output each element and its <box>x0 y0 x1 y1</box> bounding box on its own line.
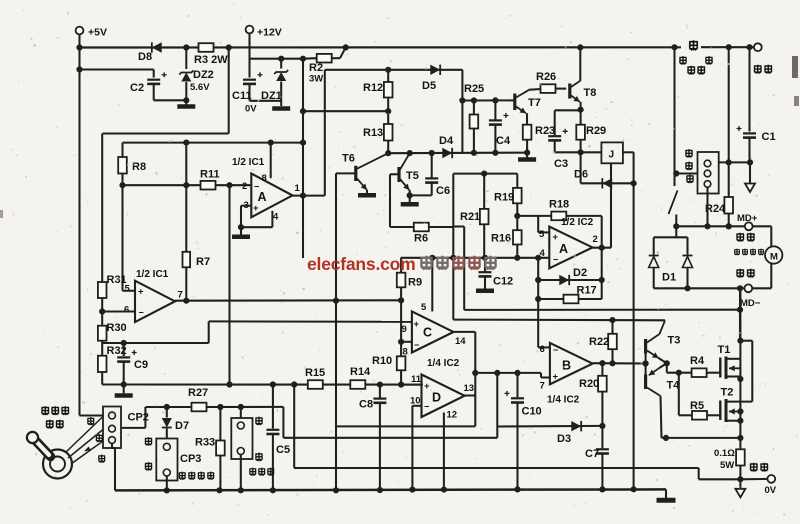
wire pin6 <box>102 310 135 312</box>
svg-text:D5: D5 <box>422 80 436 92</box>
wire C3 to node <box>555 151 581 153</box>
transistor T8 emitter <box>571 96 580 102</box>
wire C3 bottom lead <box>554 141 556 152</box>
ground R23 <box>518 157 536 162</box>
svg-text:+: + <box>414 319 420 330</box>
junction <box>535 255 541 261</box>
wire P vertical <box>463 227 465 310</box>
svg-text:R7: R7 <box>196 256 210 268</box>
resistor R4 <box>692 368 707 377</box>
capacitor C11 <box>243 79 256 81</box>
junction <box>119 182 125 188</box>
wire D6 line <box>581 182 634 184</box>
wire D2 line <box>538 279 602 281</box>
wire Q line <box>453 319 665 322</box>
svg-text:+: + <box>553 372 559 383</box>
hanzi <box>249 468 256 476</box>
svg-text:R4: R4 <box>690 355 705 367</box>
junction <box>121 340 127 346</box>
junction <box>524 150 530 156</box>
ground DZ2 <box>177 104 195 109</box>
junction <box>226 381 232 387</box>
wire D1a bottom lead <box>653 268 655 289</box>
wire limiter top <box>240 407 242 418</box>
junction <box>409 487 415 493</box>
wire D3 line <box>497 425 602 428</box>
wire B output line <box>593 362 646 364</box>
diode D1a <box>649 255 659 257</box>
transistor T5 emitter <box>400 179 409 190</box>
junction <box>164 404 170 410</box>
svg-text:elecfans.com: elecfans.com <box>307 254 416 274</box>
wire R2 left <box>303 57 317 60</box>
capacitor C10 <box>511 397 524 399</box>
diode D3 <box>571 421 581 431</box>
wire sense step <box>698 468 700 479</box>
svg-text:C5: C5 <box>276 444 290 456</box>
svg-text:−: − <box>424 402 429 412</box>
wire R9-R10 link <box>400 300 402 356</box>
wire gnd stem R23 <box>526 153 528 158</box>
watermark hanzi 5 <box>485 256 497 270</box>
hanzi <box>758 249 764 256</box>
hanzi <box>750 249 756 256</box>
wire R9 bottom lead <box>400 287 402 300</box>
svg-text:−: − <box>414 340 419 350</box>
wire R5 branch <box>678 373 680 416</box>
terminal MD+ <box>745 222 753 230</box>
junction <box>343 44 349 50</box>
svg-text:T7: T7 <box>528 97 541 109</box>
wire base join <box>645 354 647 375</box>
svg-text:5W: 5W <box>720 460 734 471</box>
junction <box>385 150 391 156</box>
hanzi <box>51 406 59 415</box>
wire pin4 stub <box>271 211 273 227</box>
junction <box>599 245 605 251</box>
capacitor C2 <box>147 79 160 81</box>
resistor R14 <box>350 380 365 389</box>
wire T1 drain <box>726 358 740 360</box>
svg-text:1/2 IC2: 1/2 IC2 <box>561 217 594 228</box>
wire PWM line <box>102 383 423 385</box>
wire R23 bottom lead <box>526 140 528 153</box>
junction <box>217 404 223 410</box>
svg-text:R11: R11 <box>200 169 220 181</box>
wire D7 bottom <box>166 429 168 439</box>
wire C8 bottom <box>379 403 381 490</box>
junction <box>599 486 605 492</box>
watermark hanzi 3 <box>453 256 465 270</box>
wire DZ2 bottom <box>185 82 187 100</box>
wire D output <box>465 394 476 396</box>
resistor 0.1ohm shunt <box>736 449 745 465</box>
svg-text:DZ2: DZ2 <box>193 69 214 81</box>
hanzi <box>188 472 195 480</box>
junction <box>333 298 339 304</box>
wire T6 collector <box>357 153 388 169</box>
svg-text:D3: D3 <box>557 433 571 445</box>
connector 3-pin <box>698 152 719 194</box>
wire R16 bottom lead <box>516 245 518 258</box>
ground T5 <box>401 202 419 207</box>
transistor T3 bar <box>644 339 647 354</box>
resistor R9 <box>397 273 406 288</box>
wire D1 top bracket <box>654 236 688 238</box>
svg-text:−: − <box>553 345 558 355</box>
svg-text:5.6V: 5.6V <box>190 82 210 93</box>
svg-text:C7: C7 <box>585 448 599 460</box>
transistor T4 bar <box>644 375 647 390</box>
wire pin7 <box>541 376 550 378</box>
svg-text:R5: R5 <box>690 400 704 412</box>
wire R30-R32 <box>101 341 103 356</box>
junction <box>164 487 170 493</box>
svg-text:D: D <box>432 391 441 405</box>
svg-text:R29: R29 <box>586 125 606 137</box>
ground C12 <box>476 289 494 294</box>
hanzi <box>705 56 712 64</box>
op-amp IC2-B <box>550 343 593 384</box>
junction <box>398 382 404 388</box>
junction <box>472 370 478 376</box>
transistor T7 bar <box>513 94 516 111</box>
wire key down <box>673 47 675 186</box>
ground DZ1 <box>272 106 290 111</box>
junction <box>514 213 520 219</box>
svg-text:−: − <box>139 308 144 318</box>
wire beta left vertical <box>282 407 284 438</box>
junction <box>459 97 465 103</box>
junction <box>471 97 477 103</box>
wire C6 top <box>431 153 433 178</box>
wire T3 emitter join <box>659 358 667 363</box>
wire IC1-B output long <box>175 299 401 301</box>
wire R29 bottom lead <box>580 140 582 153</box>
wire R2 to rail <box>340 47 346 58</box>
junction <box>300 140 306 146</box>
junction <box>300 56 306 62</box>
wire D5 node down <box>461 70 463 153</box>
svg-text:R19: R19 <box>494 192 514 204</box>
wire C10 top <box>516 373 518 397</box>
wire drain bypass <box>751 341 753 402</box>
svg-text:11: 11 <box>411 374 422 385</box>
hanzi <box>145 462 152 470</box>
wire switch bottom <box>675 215 677 227</box>
wire R12 bottom node <box>303 110 388 112</box>
wire R26 right <box>556 88 567 90</box>
wire R9 top lead <box>400 258 402 273</box>
wire +5V rail down <box>78 48 80 416</box>
wire gnd stem <box>409 195 411 202</box>
diode D2 <box>559 275 569 285</box>
wire T2 source <box>726 420 740 422</box>
junction <box>76 66 82 72</box>
wire R7 top lead <box>185 143 187 252</box>
resistor R31 <box>98 282 107 298</box>
junction <box>492 97 498 103</box>
svg-text:R31: R31 <box>107 274 127 286</box>
capacitor C12 <box>479 271 492 273</box>
wire J right <box>623 151 634 153</box>
junction <box>643 360 649 366</box>
svg-text:0V: 0V <box>245 104 257 115</box>
junction <box>578 107 584 113</box>
wire R5 right <box>707 414 720 416</box>
wire long vertical T6 base <box>335 173 337 490</box>
wire MD- right <box>752 287 771 289</box>
svg-text:T1: T1 <box>718 344 731 356</box>
wire C6 bottom link <box>410 194 432 196</box>
wire gnd stem <box>665 489 667 498</box>
hanzi <box>687 66 695 75</box>
junction <box>441 487 447 493</box>
wire comparator output line <box>475 372 541 374</box>
svg-text:C8: C8 <box>359 399 373 411</box>
wire C2 bottom <box>153 85 155 101</box>
hanzi <box>736 233 744 242</box>
wire R17 right <box>579 298 602 300</box>
wire T8 collector up <box>579 47 581 80</box>
capacitor C8 <box>373 398 386 400</box>
wire T7 emitter down <box>526 113 528 125</box>
wire R20 bottom lead <box>601 392 603 426</box>
diode D7 <box>162 418 172 428</box>
junction <box>76 44 82 50</box>
svg-text:R25: R25 <box>464 83 484 95</box>
hanzi <box>96 434 103 442</box>
junction <box>481 171 487 177</box>
svg-text:6: 6 <box>540 344 545 355</box>
svg-text:C10: C10 <box>522 406 542 418</box>
resistor R13 <box>384 124 393 141</box>
capacitor C3 <box>548 135 561 137</box>
junction <box>300 193 306 199</box>
wire C2 top <box>153 70 155 78</box>
wire cp2 elbow <box>112 447 115 449</box>
svg-text:T3: T3 <box>668 335 681 347</box>
wire C10 bottom <box>516 403 518 489</box>
hanzi <box>686 175 693 183</box>
wire pin5 stub C <box>431 258 433 312</box>
svg-text:R26: R26 <box>536 71 556 83</box>
transistor T2 <box>719 401 721 421</box>
wire R19 top lead <box>516 174 518 188</box>
wire T5 emitter down <box>409 190 411 195</box>
resistor R2 <box>317 54 332 63</box>
wire IC2-A output <box>593 247 612 249</box>
wire R6 left <box>390 226 414 228</box>
motor M <box>765 246 782 263</box>
junction <box>278 56 284 62</box>
wire CP2 right <box>121 427 145 429</box>
ground T6 <box>358 193 376 198</box>
wire R5 left <box>679 414 692 416</box>
resistor R10 <box>397 356 406 370</box>
junction <box>673 223 679 229</box>
resistor R20 <box>598 376 607 392</box>
junction <box>183 298 189 304</box>
wire pin11 <box>401 384 421 386</box>
resistor R24 <box>724 197 733 214</box>
junction <box>216 487 222 493</box>
wire C12 top <box>484 258 486 272</box>
wire R24 top <box>728 47 730 197</box>
wire R6 right <box>429 226 453 228</box>
svg-text:R27: R27 <box>188 387 208 399</box>
transistor T6 emitter <box>357 178 367 190</box>
wire DZ1 bottom <box>280 82 282 107</box>
wire D1 bottom bracket <box>654 287 740 289</box>
wire J left <box>581 151 602 153</box>
watermark hanzi 2 <box>437 256 449 270</box>
wire limiter bottom <box>240 455 242 491</box>
hanzi <box>198 472 205 480</box>
wire R32 to C9 node <box>102 383 124 385</box>
capacitor C4 <box>489 119 502 121</box>
hanzi <box>46 420 54 429</box>
wire pin3 down <box>240 206 242 228</box>
junction <box>398 339 404 345</box>
svg-text:T8: T8 <box>584 87 597 99</box>
chassis arrow C1 <box>745 184 755 193</box>
resistor R19 <box>513 188 522 203</box>
transistor T8 bar <box>568 84 571 99</box>
svg-text:1/4 IC2: 1/4 IC2 <box>547 395 580 406</box>
wire C2 to DZ2 node <box>154 99 187 101</box>
wire C output <box>454 331 476 333</box>
junction <box>737 338 743 344</box>
connector CP2 <box>103 407 121 449</box>
svg-text:6: 6 <box>124 305 129 316</box>
svg-text:R33: R33 <box>195 437 215 449</box>
junction <box>407 192 413 198</box>
hanzi <box>747 233 755 242</box>
svg-text:R10: R10 <box>372 355 392 367</box>
svg-text:T5: T5 <box>406 170 419 182</box>
wire opamp A out up <box>324 70 326 196</box>
hanzi <box>747 269 755 278</box>
junction <box>238 224 244 230</box>
junction <box>747 159 753 165</box>
svg-text:+: + <box>253 203 259 214</box>
hanzi <box>697 66 705 75</box>
junction <box>599 360 605 366</box>
terminal +5V <box>76 27 84 35</box>
transistor T6 bar <box>354 166 357 181</box>
svg-text:R20: R20 <box>579 378 599 390</box>
wire R32 bottom <box>101 372 103 385</box>
diode D8 <box>152 42 162 52</box>
wire chassis stem <box>749 162 751 183</box>
svg-text:3W: 3W <box>309 74 323 85</box>
terminal +12V <box>246 26 254 34</box>
hanzi <box>764 65 772 74</box>
wire +12V stem <box>248 33 250 58</box>
wire T5 base <box>390 173 399 175</box>
junction <box>663 435 669 441</box>
resistor R27 <box>192 403 207 412</box>
wire C11 bottom <box>248 85 250 101</box>
wire to pin5 A <box>537 216 539 233</box>
wire DZ1 top <box>280 59 282 69</box>
svg-text:−: − <box>553 255 558 265</box>
junction <box>494 370 500 376</box>
wire pin6 vertical <box>537 258 539 348</box>
wire sense down <box>293 385 295 469</box>
wire R4 left <box>667 372 692 374</box>
wire to R31 column <box>103 132 229 134</box>
wire shunt bottom <box>739 466 741 480</box>
svg-text:M: M <box>770 252 778 263</box>
wire throttle line right <box>207 406 284 408</box>
wire C9 bottom lead <box>123 362 125 385</box>
resistor R8 <box>118 157 127 174</box>
svg-text:14: 14 <box>455 336 466 347</box>
wire R33 top <box>219 407 221 441</box>
terminal MD- <box>744 284 752 292</box>
wire R step <box>208 321 210 343</box>
svg-text:R6: R6 <box>414 233 428 245</box>
wire D1a top lead <box>653 237 655 254</box>
wire CP2 up <box>144 407 146 428</box>
junction <box>471 150 477 156</box>
junction <box>291 381 297 387</box>
wire IC1-A output <box>293 195 325 197</box>
wire pin5 A <box>538 231 549 233</box>
junction <box>385 67 391 73</box>
junction <box>268 140 274 146</box>
wire T5 collector <box>400 153 410 169</box>
diode D5 <box>430 65 440 75</box>
svg-text:A: A <box>559 242 568 256</box>
terminal 0V <box>767 475 775 483</box>
wire T8 emitter down <box>580 102 582 110</box>
svg-text:13: 13 <box>464 383 475 394</box>
svg-text:MD−: MD− <box>740 298 761 309</box>
junction <box>726 44 732 50</box>
wire output bus <box>739 288 741 449</box>
hanzi <box>61 406 69 415</box>
hanzi <box>258 468 265 476</box>
junction <box>535 277 541 283</box>
junction <box>270 487 276 493</box>
relay J <box>601 142 623 163</box>
terminal battery+ <box>754 43 762 51</box>
hanzi <box>267 468 274 476</box>
watermark hanzi 4 <box>469 256 481 270</box>
svg-text:R22: R22 <box>589 336 609 348</box>
hanzi <box>87 417 94 425</box>
junction <box>398 297 404 303</box>
svg-text:D4: D4 <box>439 135 454 147</box>
wire reference line <box>401 257 550 259</box>
resistor R11 <box>201 181 216 190</box>
svg-text:4: 4 <box>540 248 546 259</box>
wire T5 base down <box>389 174 391 227</box>
wire R line to C plus <box>209 320 412 322</box>
svg-text:7: 7 <box>178 290 183 301</box>
wire T4 collector down <box>661 396 662 438</box>
junction <box>535 296 541 302</box>
junction <box>599 277 605 283</box>
wire C7 top <box>601 426 603 448</box>
wire R17 left <box>538 298 563 300</box>
hanzi <box>760 463 768 472</box>
junction <box>514 255 520 261</box>
hanzi <box>56 420 64 429</box>
